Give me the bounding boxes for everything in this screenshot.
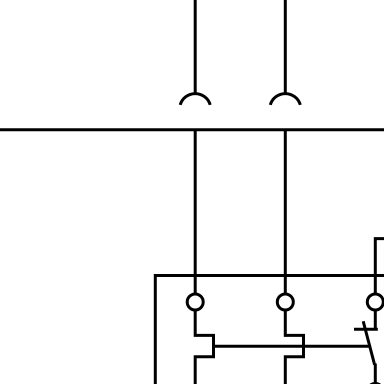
NC contact moving blade (diagonal) [363,321,374,365]
enclosure box outline (device housing, cropped) [155,276,384,384]
wire: pole 1 drop from bus to terminal [194,130,197,294]
wire: horizontal mains bus line [0,128,384,131]
wire: pole 3 lower terminal lead [374,364,377,384]
wire: pole 2 drop from bus to terminal [284,130,287,294]
thermal overload element pole 1 [195,310,213,384]
NC contact pole 3: fixed terminal lead [374,310,377,329]
NC contact seat stroke [354,328,378,331]
thermal overload element pole 2 [285,310,303,384]
wire L2 supply drop [284,0,287,95]
wire: pole 3 feed entering from right edge [375,239,384,294]
terminal circle 2 [277,294,293,310]
terminal circle 1 [187,294,203,310]
mechanical linkage line [214,345,370,348]
wire L1 supply drop [194,0,197,95]
socket contact arc (connector, pole 1) [180,94,210,105]
terminal circle 3 [367,294,383,310]
socket contact arc (connector, pole 2) [270,94,300,105]
